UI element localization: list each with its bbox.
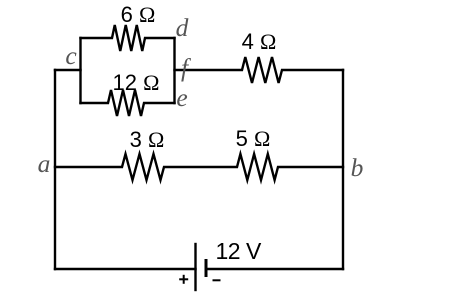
svg-text:f: f <box>181 53 192 82</box>
wire parallel-block left vertical <box>79 38 81 103</box>
battery plus sign <box>179 275 188 284</box>
resistor R4 3ohm and resistor R5 5ohm middle wire a-b <box>55 154 343 180</box>
wire battery to bottom right <box>206 268 343 270</box>
battery V1 negative plate <box>205 259 208 277</box>
wire node c stub <box>55 69 81 71</box>
svg-text:d: d <box>176 13 189 42</box>
wire right vertical <box>342 70 344 269</box>
svg-text:c: c <box>65 41 77 70</box>
svg-text:12 V: 12 V <box>216 238 262 264</box>
svg-text:a: a <box>38 149 51 178</box>
svg-text:12 Ω: 12 Ω <box>113 70 160 95</box>
wire bottom left to battery <box>55 268 196 270</box>
svg-text:b: b <box>351 153 364 182</box>
battery V1 positive plate <box>194 244 196 290</box>
resistor R3 4ohm with node f wire <box>175 57 344 83</box>
svg-text:3 Ω: 3 Ω <box>130 127 165 152</box>
svg-text:e: e <box>176 83 187 112</box>
wire left vertical <box>54 70 56 269</box>
svg-text:5 Ω: 5 Ω <box>236 126 271 151</box>
svg-text:6 Ω: 6 Ω <box>121 2 156 27</box>
wire parallel-block right vertical <box>173 38 175 103</box>
svg-text:4 Ω: 4 Ω <box>242 29 277 54</box>
battery minus sign <box>213 279 221 281</box>
resistor R1 6ohm top branch <box>81 25 175 51</box>
resistor R2 12ohm bottom branch <box>81 90 175 116</box>
